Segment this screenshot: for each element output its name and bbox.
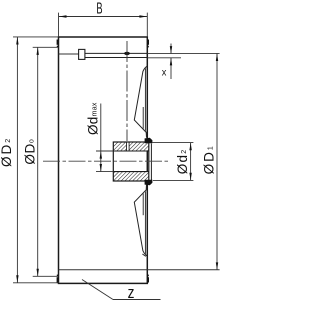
back disc lower sheet second line [142,194,144,216]
dimension x: upper arrow [170,46,172,54]
blade strip bottom line [85,57,147,59]
dimension Odmax: top arrow [100,151,102,159]
hub bottom hatched band [113,172,149,181]
label OD0 [23,139,38,165]
dimension OD0: bottom extension [33,275,59,277]
leader line z horizontal [113,299,161,301]
dimension Od2 (hub): line [190,143,192,181]
back disc upper sheet second line [142,107,144,129]
dimension B: left arrow [59,15,67,17]
back disc sheet beside hub [150,144,152,181]
dimension OD2: bottom extension [13,282,59,284]
shroud rim rivet (top left) [57,40,59,48]
back disc weld flag top [145,138,153,144]
back disc lower sheet inner line [144,191,146,254]
back disc lower silhouette [134,185,147,256]
rivet centre line (vertical dash-dot) [126,41,128,141]
shroud rim rivet (bottom left) [57,275,59,283]
svg-text:ØD2: ØD2 [0,137,14,167]
blade lower edge line [59,269,220,271]
dimension B: left extension [58,13,60,37]
svg-text:x: x [162,67,167,79]
dimension OD2: top extension [13,36,59,38]
dimension x: upper line segment [170,44,172,54]
back disc rim rivet (top right) [147,40,149,48]
dimension Odmax (bore): line [100,104,102,172]
dimension x: bottom extension [147,57,181,59]
dimension Odmax: bottom arrow [100,164,102,172]
rivet on blade strip [124,52,130,55]
dimension OD1: bottom arrow [216,262,218,270]
hub set screw hole [127,142,130,152]
dimension x: lower arrow [170,58,172,66]
hub bore top line [113,150,149,152]
dimension B: right extension [146,13,148,37]
dimension Od2: bottom arrow [189,173,191,181]
back disc lower edge tick [142,254,145,256]
back disc weld flag bottom [145,180,153,186]
blade section square clip [79,49,85,59]
dimension OD2: top arrow [16,37,18,45]
dimension OD0: line [37,47,39,276]
svg-text:Ødmax: Ødmax [85,102,100,135]
dimension OD0: top extension [33,46,59,48]
dimension Od2: top arrow [189,143,191,151]
svg-text:B: B [96,0,102,17]
blade strip top line [85,52,147,54]
hub bore bottom line [113,171,149,173]
back disc rim rivet (bottom right) [147,275,149,283]
dimension B: right arrow [139,15,147,17]
dimension OD2: line [16,37,18,283]
svg-text:z: z [128,284,135,303]
dimension OD2: bottom arrow [16,275,18,283]
label Odmax [85,102,100,135]
hub top hatched band [113,142,149,151]
main centre line (dash-dot) [43,160,169,162]
dimension B: line [59,16,147,18]
label OD1 [202,144,217,174]
dimension OD0: top arrow [37,47,39,55]
dimension OD1 / x: shared top extension [147,52,219,54]
svg-text:Ød2: Ød2 [175,149,190,175]
back disc upper silhouette [134,66,147,137]
impeller body outline [59,37,148,283]
back disc upper sheet inner line [144,68,146,131]
dimension OD0: bottom arrow [37,269,39,277]
label OD2 [0,137,14,167]
hub outline [113,142,149,181]
svg-text:ØDo: ØDo [23,139,38,165]
dimension Odmax: bottom extension [96,171,113,173]
dimension Odmax: top extension [96,150,113,152]
dimension Od2: bottom extension [153,179,193,181]
dimension Od2: top extension [153,142,194,144]
dimension OD1: top arrow [216,53,218,61]
dimension OD1: line [216,53,218,270]
dimension x: lower line segment [170,58,172,79]
label Od2 [175,149,190,175]
leader line z diagonal [82,280,113,300]
svg-text:ØD1: ØD1 [202,144,217,174]
front shroud line left of blade clip [59,53,79,55]
